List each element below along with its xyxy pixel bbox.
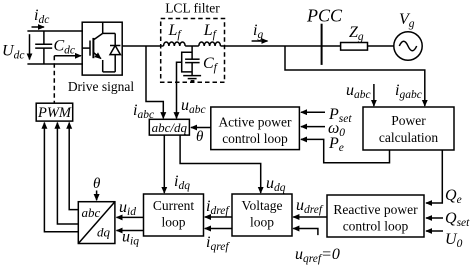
svg-text:loop: loop	[250, 215, 274, 230]
svg-text:PCC: PCC	[306, 6, 343, 26]
svg-text:uabc: uabc	[346, 82, 371, 101]
svg-text:idref: idref	[206, 198, 230, 217]
wire i_qref Voltage loop to Current loop	[205, 228, 232, 230]
svg-text:θ: θ	[196, 129, 204, 145]
wire DC bus bottom	[27, 63, 83, 65]
wire i_dref Voltage loop to Current loop	[205, 216, 232, 218]
block Current loop	[144, 194, 204, 236]
inductor Lf1	[164, 42, 186, 46]
svg-text:Active power: Active power	[218, 115, 292, 130]
svg-text:udref: udref	[296, 197, 324, 216]
wire Q_e from Power calculation to Reactive loop	[426, 150, 442, 203]
wire u_iq Current loop to dq/abc	[117, 230, 144, 232]
svg-text:dq: dq	[97, 225, 111, 240]
source Vg	[394, 32, 422, 60]
svg-text:uabc: uabc	[181, 97, 206, 116]
wire u_abc from filter capacitor to abc/dq	[177, 62, 182, 118]
svg-text:idq: idq	[174, 173, 190, 192]
svg-text:abc/dq: abc/dq	[152, 120, 188, 135]
svg-text:loop: loop	[161, 215, 185, 230]
inverter box	[82, 22, 122, 75]
svg-text:Reactive power: Reactive power	[333, 202, 418, 217]
wire u_id Current loop to dq/abc	[117, 216, 144, 218]
svg-text:Vg: Vg	[399, 11, 415, 30]
svg-text:PWM: PWM	[37, 105, 72, 121]
block dq/abc inverse transform	[78, 202, 115, 244]
wire P_set input	[301, 111, 325, 113]
svg-text:Cf: Cf	[203, 55, 219, 74]
svg-text:control loop: control loop	[343, 219, 409, 234]
wire IGBT-diode top	[103, 32, 116, 34]
svg-text:Udc: Udc	[2, 43, 24, 62]
svg-text:Current: Current	[153, 198, 194, 213]
wire U_0 input	[426, 230, 443, 232]
svg-text:uqref=0: uqref=0	[295, 246, 340, 265]
wire inverter AC output	[122, 45, 163, 47]
block Active power control loop	[211, 107, 300, 150]
svg-text:Qset: Qset	[445, 210, 470, 229]
wire u_qref=0 input	[293, 229, 318, 236]
block Voltage loop	[232, 194, 292, 236]
svg-text:control loop: control loop	[222, 131, 288, 146]
svg-text:Voltage: Voltage	[242, 198, 283, 213]
impedance Zg	[341, 43, 368, 51]
capacitor C_dc	[35, 31, 52, 64]
capacitor Cf	[185, 46, 200, 76]
node PCC busbar	[321, 24, 323, 65]
wire dashed PWM to drive arrow	[53, 56, 55, 103]
wire P_e from Power calculation	[301, 139, 390, 162]
wire drive-signal arrow to IGBT gate	[54, 55, 81, 57]
svg-text:θ: θ	[93, 176, 101, 192]
svg-text:Cdc: Cdc	[54, 38, 76, 57]
LCL filter dashed box	[161, 19, 225, 83]
wire i_dc current arrow	[32, 26, 45, 28]
svg-text:udq: udq	[266, 175, 286, 194]
svg-text:LCL filter: LCL filter	[165, 1, 220, 16]
svg-text:idc: idc	[34, 7, 49, 26]
svg-text:U0: U0	[445, 231, 463, 250]
wire PWM phase c	[44, 123, 78, 232]
svg-text:uiq: uiq	[122, 229, 139, 248]
wire PWM phase b	[57, 123, 78, 224]
svg-text:iabc: iabc	[133, 102, 154, 121]
wire bracket parallel to Cf	[182, 52, 192, 72]
svg-text:Qe: Qe	[445, 187, 462, 206]
wire omega_0 input	[301, 126, 325, 128]
wire Q_set input	[426, 217, 443, 219]
svg-text:calculation: calculation	[379, 130, 438, 145]
block PWM	[36, 103, 72, 121]
svg-text:uid: uid	[119, 199, 136, 218]
wire i_dq abc/dq to Current loop	[163, 135, 165, 193]
wire Zg to Vg	[368, 45, 394, 47]
wire i_abc tap to abc/dq	[146, 46, 163, 118]
ground	[183, 76, 201, 81]
svg-text:Drive signal: Drive signal	[68, 79, 135, 94]
wire between inductors	[185, 45, 199, 47]
wire PWM phase a	[69, 123, 78, 210]
diode D1	[110, 33, 120, 72]
svg-text:Zg: Zg	[349, 24, 364, 43]
svg-text:Lf: Lf	[203, 22, 218, 41]
wire PCC tap to i_gabc into Power calculation	[285, 46, 425, 106]
wire u_dref Reactive loop to Voltage loop	[293, 216, 327, 218]
svg-text:ig: ig	[253, 22, 263, 41]
wire u_dq abc/dq to Voltage loop	[180, 135, 261, 193]
wire DC bus top	[27, 30, 83, 32]
inductor Lf2	[199, 42, 221, 46]
wire IGBT-diode bottom	[103, 71, 116, 73]
svg-text:abc: abc	[82, 205, 101, 220]
wire U_dc voltage arrow	[29, 34, 31, 59]
block Power calculation	[363, 107, 454, 150]
block Reactive power control loop	[327, 195, 424, 237]
svg-text:Power: Power	[391, 113, 426, 128]
svg-text:iqref: iqref	[206, 234, 230, 253]
wire u_abc stub into Power calculation	[373, 84, 375, 106]
svg-text:Lf: Lf	[168, 22, 183, 41]
block abc/dq transform	[149, 119, 189, 135]
wire main line to PCC and Zg	[221, 45, 341, 47]
wire theta stub into dq/abc	[96, 191, 98, 201]
svg-text:igabc: igabc	[395, 82, 422, 101]
wire i_g current arrow	[252, 40, 268, 42]
transistor Q1 IGBT	[82, 22, 103, 72]
wire theta from active power loop to abc/dq	[191, 127, 211, 129]
